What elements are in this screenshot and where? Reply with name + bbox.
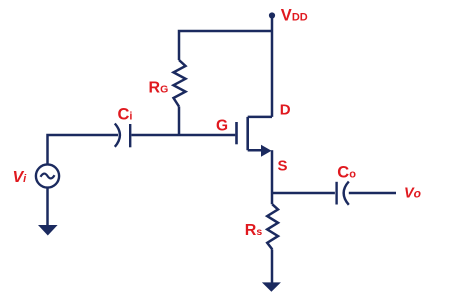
svg-text:Ci: Ci bbox=[118, 106, 133, 124]
svg-text:Vi: Vi bbox=[13, 169, 28, 186]
ground at RS bbox=[262, 282, 281, 291]
resistor RG bbox=[174, 60, 186, 107]
wire gate from Ci to Q1 gate bbox=[132, 134, 236, 137]
node VDD dot bbox=[269, 12, 275, 18]
svg-text:S: S bbox=[278, 157, 288, 174]
svg-text:Co: Co bbox=[337, 163, 356, 181]
svg-text:G: G bbox=[216, 117, 228, 134]
svg-text:VDD: VDD bbox=[281, 7, 308, 25]
wire from node S to Co bbox=[272, 192, 335, 195]
svg-text:RG: RG bbox=[149, 80, 169, 97]
svg-text:D: D bbox=[280, 102, 291, 119]
svg-text:Vo: Vo bbox=[404, 186, 421, 202]
wire Vi bottom lead to ground bbox=[46, 188, 49, 226]
ground at Vi bbox=[38, 225, 58, 236]
wire RS bottom lead to ground bbox=[271, 249, 274, 283]
capacitor Co bbox=[337, 182, 349, 205]
wire source vertical from Q1 source to node S bbox=[271, 150, 274, 193]
svg-text:Rs: Rs bbox=[245, 222, 263, 239]
wire VDD rail with RG drop bbox=[179, 31, 272, 60]
wire RG bottom lead to gate wire bbox=[178, 107, 181, 137]
voltage source Vi bbox=[36, 164, 59, 187]
capacitor Ci bbox=[115, 124, 130, 148]
wire drain vertical from VDD to Q1 drain bbox=[271, 16, 274, 117]
resistor RS bbox=[267, 204, 278, 249]
mosfet Q1 bbox=[237, 117, 273, 157]
wire output from Co to Vo bbox=[349, 192, 396, 195]
wire input from Vi to Ci bbox=[48, 135, 119, 165]
wire RS top lead from node S bbox=[271, 193, 274, 204]
